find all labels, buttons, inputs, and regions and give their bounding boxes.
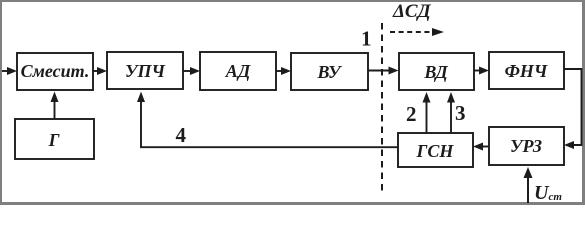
- svg-text:УПЧ: УПЧ: [125, 61, 166, 81]
- svg-text:Смесит.: Смесит.: [21, 61, 90, 81]
- frame top: [0, 0, 585, 2]
- svg-text:ВУ: ВУ: [316, 62, 342, 82]
- wire feedback 4: ГСН left to under УПЧ, up into УПЧ: [137, 92, 398, 148]
- frame left: [0, 0, 2, 205]
- dashed section divider line: [381, 23, 383, 194]
- svg-text:3: 3: [455, 101, 466, 125]
- wire input arrow into Смесит.: [2, 67, 17, 75]
- svg-text:Г: Г: [48, 130, 60, 150]
- block ФНЧ (low-pass filter): [489, 52, 564, 89]
- svg-text:ВД: ВД: [423, 62, 448, 82]
- wire АД to ВУ: [276, 67, 291, 75]
- svg-text:ΔСД: ΔСД: [392, 1, 432, 22]
- wire ВД to ФНЧ: [474, 67, 489, 75]
- block Смесит. (mixer): [17, 53, 93, 90]
- wire ВУ to ВД (crosses dashed line): [368, 67, 399, 75]
- wire УПЧ to АД: [183, 67, 200, 75]
- frame right: [582, 0, 585, 205]
- block ВД (time discriminator): [399, 53, 474, 90]
- wire УРЗ to ГСН: [473, 143, 489, 151]
- wire ФНЧ right, down, into УРЗ right side: [564, 69, 582, 149]
- wire Uст up into УРЗ bottom: [524, 167, 533, 203]
- wire Г up to Смесит.: [51, 92, 59, 120]
- block УПЧ (IF amplifier): [107, 52, 183, 89]
- block УРЗ (delay control unit): [489, 127, 564, 165]
- wire ГСН to ВД arrow (gate 3): [447, 92, 455, 133]
- svg-text:1: 1: [361, 27, 372, 51]
- frame bottom: [0, 202, 585, 205]
- svg-text:ФНЧ: ФНЧ: [505, 61, 548, 81]
- block ВУ (video amplifier): [291, 53, 368, 90]
- svg-text:ГСН: ГСН: [416, 141, 455, 161]
- svg-text:АД: АД: [225, 61, 251, 81]
- block ГСН (gate pulse generator): [398, 133, 473, 167]
- dashed arrow ΔСД direction: [390, 28, 444, 36]
- block Г (local oscillator): [15, 119, 94, 159]
- wire ГСН to ВД arrow (gate 2): [423, 92, 431, 133]
- wire Смесит. to УПЧ: [93, 67, 107, 75]
- svg-text:4: 4: [176, 123, 187, 147]
- svg-text:2: 2: [406, 102, 417, 126]
- svg-text:УРЗ: УРЗ: [510, 136, 542, 156]
- block АД (amplitude detector): [200, 52, 276, 90]
